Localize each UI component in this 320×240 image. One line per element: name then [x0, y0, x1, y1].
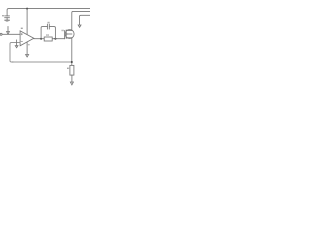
node output junction right — [54, 38, 56, 40]
pin - mark — [21, 41, 22, 43]
voltage arrow on - input — [15, 40, 18, 48]
transistor T1 (MOSFET) — [65, 30, 75, 39]
terminal arrow top right — [78, 25, 81, 27]
label U1 — [21, 28, 23, 29]
wire top supply rail — [7, 9, 90, 16]
label C1 — [2, 15, 4, 16]
resistor R1 — [44, 37, 52, 41]
capacitor C1 — [5, 16, 10, 20]
wire op-amp V+ stub — [26, 9, 28, 35]
voltage arrow on + input — [7, 27, 10, 34]
ground arrow (V-) — [26, 55, 29, 57]
label pin V- — [28, 44, 30, 45]
resistor R2 — [70, 65, 74, 75]
wire op-amp output to gate — [34, 38, 65, 40]
wire inverting input feedback — [10, 43, 20, 62]
op-amp U1 — [20, 31, 34, 46]
node input terminal — [0, 33, 2, 35]
label T1 — [62, 30, 64, 32]
wire R2 bottom — [71, 75, 73, 82]
node source junction — [71, 61, 73, 63]
wire terminal branch top right — [80, 15, 91, 25]
wire drain to right edge — [72, 11, 90, 30]
wire C2 branch — [41, 27, 47, 39]
capacitor C2 — [47, 24, 49, 29]
wire non-inverting input — [2, 33, 20, 35]
ground (C1 bottom) — [5, 20, 9, 21]
wire op-amp V- stub — [26, 42, 28, 54]
node V+ junction — [26, 8, 28, 10]
terminal arrow bottom — [70, 82, 73, 85]
node output junction left — [40, 38, 42, 40]
label R2 — [67, 68, 69, 69]
pin + mark — [21, 33, 22, 34]
wire source down — [71, 38, 73, 66]
label C2 — [48, 22, 50, 24]
label R1 — [46, 34, 48, 36]
wire C2 branch right — [49, 27, 55, 39]
